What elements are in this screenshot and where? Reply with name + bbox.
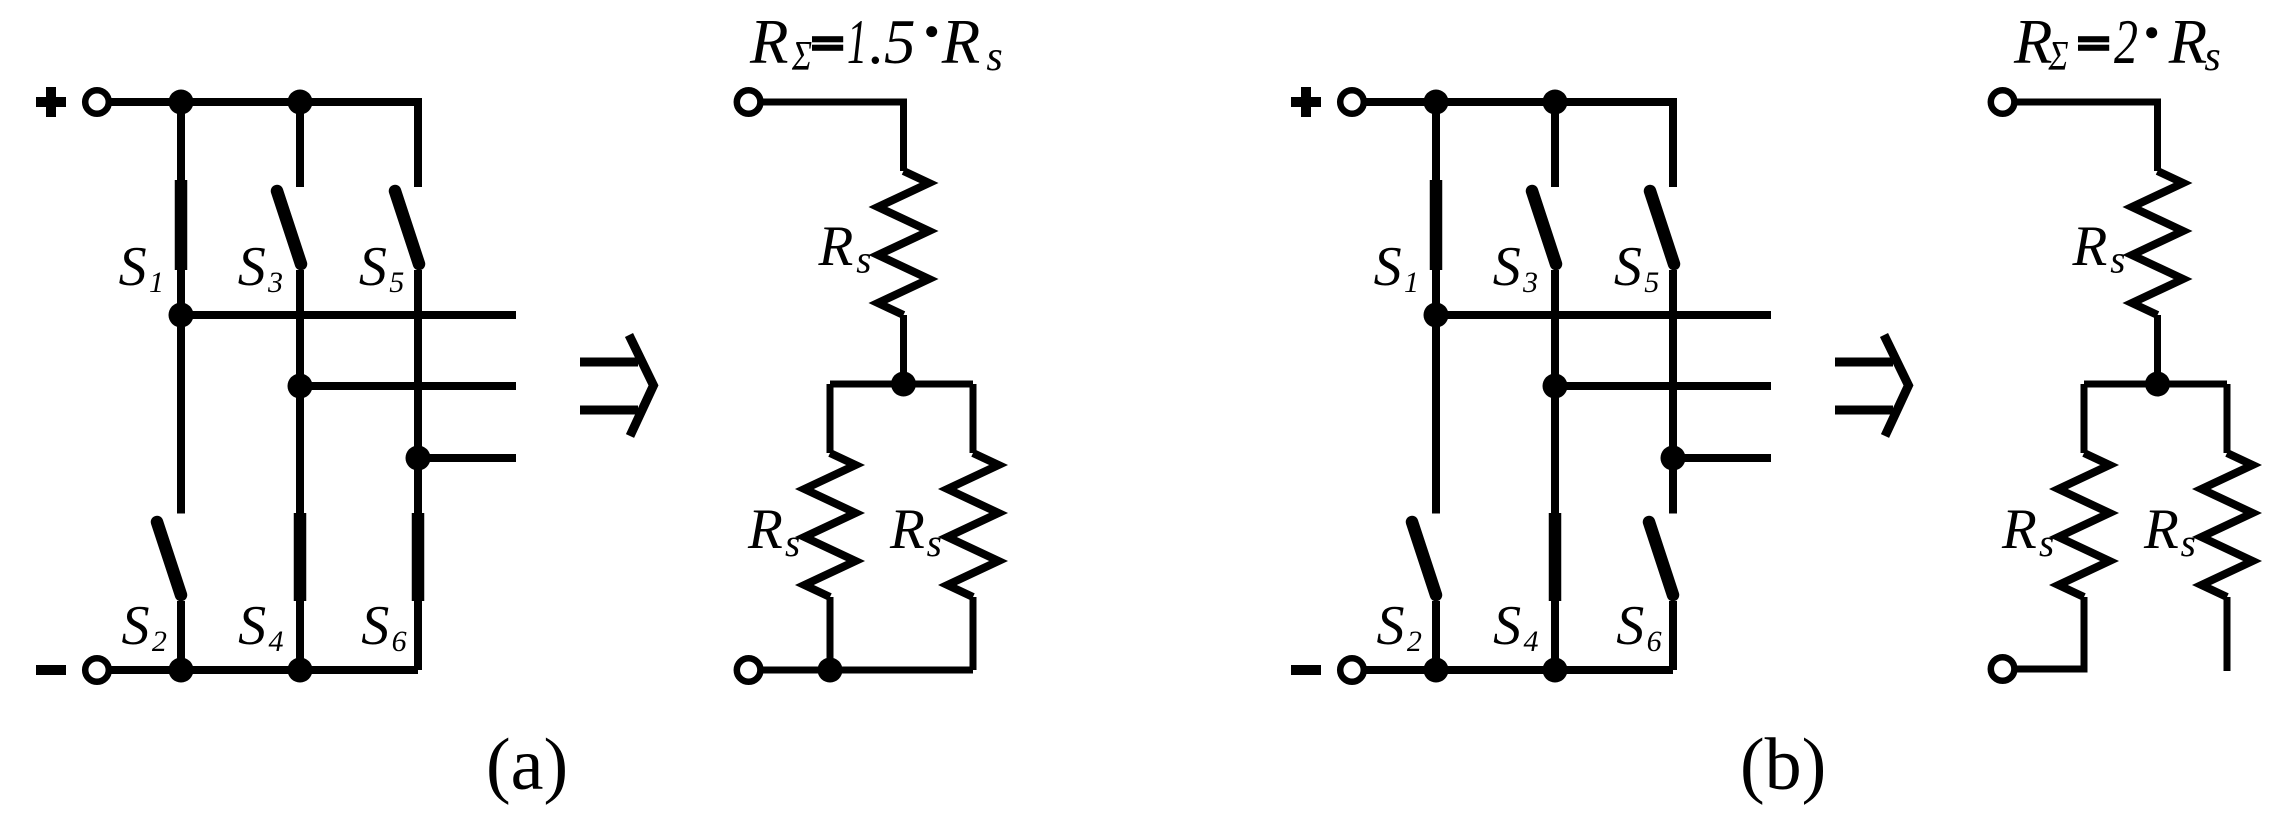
junction negative rail / S2 (a) <box>169 658 194 683</box>
switch S6 open blade (b) <box>1649 522 1673 595</box>
node phase C junction (b) <box>1661 446 1686 471</box>
svg-text:s: s <box>2039 522 2054 565</box>
resistor Rs series (equiv b) <box>2132 171 2183 315</box>
svg-text:s: s <box>856 239 871 282</box>
svg-text:s: s <box>927 522 942 565</box>
node junction (equiv a) <box>891 372 916 397</box>
svg-text:s: s <box>986 34 1002 80</box>
svg-text:S: S <box>359 236 387 298</box>
wire phase C output (b) <box>1673 454 1771 462</box>
input terminal (equiv b) <box>1991 90 2015 114</box>
wire S5/S6 branch upper (b) <box>1669 270 1677 514</box>
terminal + (b) <box>1291 97 1321 107</box>
svg-text:2: 2 <box>2114 7 2138 77</box>
svg-text:(b): (b) <box>1740 724 1826 806</box>
svg-text:R: R <box>818 215 854 278</box>
svg-text:4: 4 <box>1524 625 1539 658</box>
switch S2 open blade (a) <box>157 522 181 595</box>
svg-text:s: s <box>2204 34 2220 80</box>
wire S3/S4 branch (a) <box>296 270 304 670</box>
wire parallel top (equiv b) <box>2084 381 2227 388</box>
switch S2 open blade (b) <box>1412 522 1436 595</box>
wire phase B output (b) <box>1555 382 1771 390</box>
svg-text:3: 3 <box>1522 266 1538 299</box>
positive terminal (b) <box>1340 90 1364 114</box>
svg-text:R: R <box>749 7 788 77</box>
svg-text:s: s <box>2110 239 2125 282</box>
svg-text:R: R <box>2072 215 2108 278</box>
svg-text:5: 5 <box>389 266 404 299</box>
svg-text:R: R <box>941 7 980 77</box>
terminal − (a) <box>36 665 66 675</box>
wire S1 branch (a) <box>177 102 185 514</box>
svg-text:R: R <box>2001 498 2037 561</box>
svg-text:6: 6 <box>1647 625 1662 658</box>
svg-text:S: S <box>1493 236 1521 298</box>
wire right branch upper (equiv b) <box>2224 384 2231 453</box>
svg-text:S: S <box>1377 595 1405 657</box>
negative terminal (b) <box>1340 658 1364 682</box>
wire input (equiv b) <box>2016 102 2158 171</box>
junction positive rail / S3 (a) <box>288 90 313 115</box>
svg-text:Σ: Σ <box>791 34 812 80</box>
resistor Rs parallel left (equiv a) <box>804 453 855 597</box>
svg-text:S: S <box>238 595 266 657</box>
svg-text:S: S <box>361 595 389 657</box>
wire right branch open stub (equiv b) <box>2224 597 2231 671</box>
wire input (equiv a) <box>762 102 904 171</box>
wire phase A output (b) <box>1436 311 1771 319</box>
terminal + (a) <box>36 97 66 107</box>
wire S5/S6 branch (a) <box>414 270 422 670</box>
wire right branch lower (equiv a) <box>970 597 977 670</box>
wire negative rail (a) <box>110 666 418 674</box>
switch S5 open blade (a) <box>395 191 419 264</box>
wire S6 lower (b) <box>1669 601 1677 670</box>
svg-text:Σ: Σ <box>2048 34 2069 80</box>
output terminal (equiv a) <box>737 658 761 682</box>
wire negative rail (b) <box>1365 666 1673 674</box>
svg-text:S: S <box>1493 595 1521 657</box>
junction positive rail / S1 (a) <box>169 90 194 115</box>
wire phase A output (a) <box>181 311 516 319</box>
terminal − (b) <box>1291 665 1321 675</box>
switch S3 open blade (a) <box>277 191 301 264</box>
svg-text:2: 2 <box>1407 625 1422 658</box>
wire S3 upper stub (b) <box>1551 102 1559 187</box>
transformation arrow <box>580 358 638 367</box>
wire left branch lower (equiv a) <box>827 597 834 670</box>
junction negative rail / S4 (b) <box>1543 658 1568 683</box>
wire S3 upper stub (a) <box>296 102 304 187</box>
node phase A junction (a) <box>169 303 194 328</box>
wire parallel top (equiv a) <box>830 381 973 388</box>
resistor Rs parallel right (equiv b) <box>2201 453 2252 597</box>
svg-text:R: R <box>747 498 783 561</box>
transformation arrow <box>1835 358 1893 367</box>
junction positive rail / S3 (b) <box>1543 90 1568 115</box>
svg-text:5: 5 <box>1644 266 1659 299</box>
wire phase B output (a) <box>300 382 516 390</box>
wire S1 branch (b) <box>1432 102 1440 514</box>
svg-text:R: R <box>889 498 925 561</box>
switch S5 open blade (b) <box>1650 191 1674 264</box>
input terminal (equiv a) <box>737 90 761 114</box>
wire series to node (equiv b) <box>2154 315 2161 384</box>
svg-text:S: S <box>1374 236 1402 298</box>
junction negative rail / S2 (b) <box>1424 658 1449 683</box>
node phase B junction (a) <box>288 374 313 399</box>
svg-text:R: R <box>2013 7 2052 77</box>
wire phase C output (a) <box>418 454 516 462</box>
wire right branch upper (equiv a) <box>970 384 977 453</box>
formula R_sigma = 2 R_s (equiv b) <box>2013 7 2221 80</box>
svg-text:1: 1 <box>149 266 164 299</box>
svg-text:4: 4 <box>269 625 284 658</box>
svg-text:2: 2 <box>152 625 167 658</box>
switch S4 closed contact (a) <box>294 513 307 601</box>
switch S1 closed contact (b) <box>1430 180 1443 270</box>
node phase A junction (b) <box>1424 303 1449 328</box>
svg-text:6: 6 <box>392 625 407 658</box>
wire positive rail (a) <box>110 102 418 187</box>
svg-text:S: S <box>119 236 147 298</box>
switch S3 open blade (b) <box>1532 191 1556 264</box>
svg-text:s: s <box>785 522 800 565</box>
switch S4 closed contact (b) <box>1549 513 1562 601</box>
wire series to node (equiv a) <box>900 315 907 384</box>
svg-text:5: 5 <box>884 7 916 77</box>
resistor Rs parallel right (equiv a) <box>947 453 998 597</box>
svg-text:.: . <box>869 7 885 77</box>
switch S6 closed contact (a) <box>412 513 425 601</box>
junction negative rail (equiv a) <box>818 658 843 683</box>
svg-text:R: R <box>2143 498 2179 561</box>
svg-text:s: s <box>2181 522 2196 565</box>
node phase C junction (a) <box>406 446 431 471</box>
positive terminal (a) <box>85 90 109 114</box>
wire S3/S4 branch (b) <box>1551 270 1559 670</box>
svg-text:1: 1 <box>1404 266 1419 299</box>
svg-text:(a): (a) <box>486 724 568 806</box>
wire S2 lower (a) <box>177 601 185 670</box>
svg-text:S: S <box>238 236 266 298</box>
wire left branch upper (equiv b) <box>2081 384 2088 453</box>
switch S1 closed contact (a) <box>175 180 188 270</box>
wire left branch to terminal (equiv b) <box>2016 597 2084 669</box>
negative terminal (a) <box>85 658 109 682</box>
node junction (equiv b) <box>2145 372 2170 397</box>
svg-text:S: S <box>1614 236 1642 298</box>
junction positive rail / S1 (b) <box>1424 90 1449 115</box>
wire positive rail (b) <box>1365 102 1673 187</box>
junction negative rail / S4 (a) <box>288 658 313 683</box>
wire left branch upper (equiv a) <box>827 384 834 453</box>
svg-text:S: S <box>1616 595 1644 657</box>
resistor Rs series (equiv a) <box>878 171 929 315</box>
svg-text:1: 1 <box>847 7 867 77</box>
node phase B junction (b) <box>1543 374 1568 399</box>
svg-text:S: S <box>122 595 150 657</box>
svg-text:3: 3 <box>267 266 283 299</box>
wire negative rail (equiv a) <box>762 667 973 674</box>
formula R_sigma = 1.5 R_s (equiv a) <box>749 7 1003 80</box>
output terminal (equiv b) <box>1991 657 2015 681</box>
wire S2 lower (b) <box>1432 601 1440 670</box>
svg-text:R: R <box>2168 7 2207 77</box>
resistor Rs parallel left (equiv b) <box>2058 453 2109 597</box>
